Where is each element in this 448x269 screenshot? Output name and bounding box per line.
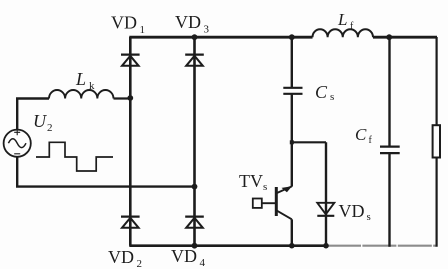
node VDs on bottom rail [323,243,329,249]
wire Lk to node A [114,97,131,99]
node top of Cs branch [289,34,295,40]
svg-text:VD: VD [108,247,134,267]
node jog junction on collector line [290,140,294,144]
wire right bridge leg (VD3/VD4 branch) [193,37,196,246]
wire Cs / collector branch [291,37,293,187]
svg-text:C: C [355,125,367,144]
svg-text:s: s [330,91,334,103]
svg-text:4: 4 [200,257,206,269]
wire left bridge leg (VD1/VD2 branch) [129,37,132,246]
wire Cf branch [388,37,390,247]
label VD3 [175,12,210,36]
svg-text:TV: TV [239,171,263,191]
inductor Lf [313,29,373,37]
node A (Lk to bridge) [127,95,133,101]
waveform of u2 [36,142,113,171]
svg-text:VD: VD [339,201,365,221]
wire source bottom to VD4 node [17,157,194,187]
label VDs [339,201,371,223]
svg-text:k: k [89,80,95,92]
svg-text:2: 2 [137,258,143,269]
svg-text:L: L [75,69,86,89]
wire emitter to bottom rail [291,219,293,245]
label Lk [75,69,95,92]
node top of VD3 leg [192,34,198,40]
diode VD2 [121,217,140,228]
label VD1 [111,13,145,37]
transistor TVs (GTR) [253,186,292,219]
node AC to VD4 leg [192,184,198,190]
svg-text:L: L [337,10,347,29]
AC source U2 [4,129,31,156]
node bottom of VD4 leg [192,243,198,249]
capacitor Cs [283,88,302,94]
wire jog to VDs branch [292,141,326,143]
node top of Cf branch [386,34,392,40]
label TVs [239,171,267,193]
inductor Lk [49,90,113,99]
label VD4 [171,246,206,269]
wire top rail [129,36,437,39]
svg-text:VD: VD [111,13,137,33]
label Cs [315,82,334,103]
diode VDs [317,203,334,216]
diode VD3 [185,55,204,66]
wire bottom rail (faint gray part) [327,245,436,247]
svg-text:s: s [263,181,267,193]
label Lf [337,10,354,32]
svg-text:1: 1 [140,24,146,36]
resistor load [433,125,440,157]
wire source top to Lk [17,99,49,130]
label VD2 [108,247,142,269]
svg-text:C: C [315,82,328,102]
diode VD1 [121,55,140,66]
svg-text:U: U [33,111,47,131]
svg-text:2: 2 [47,122,53,134]
svg-text:3: 3 [204,24,210,36]
label U2 [33,111,53,134]
svg-text:s: s [367,211,371,223]
svg-text:VD: VD [175,12,201,32]
diode VD4 [185,217,204,228]
svg-text:VD: VD [171,246,197,266]
wire VDs branch [325,142,327,245]
node emitter on bottom rail [289,243,295,249]
capacitor Cf [380,147,400,154]
label Cf [355,125,373,146]
wire right load branch [436,37,438,247]
wire bottom rail (black part) [129,244,327,247]
